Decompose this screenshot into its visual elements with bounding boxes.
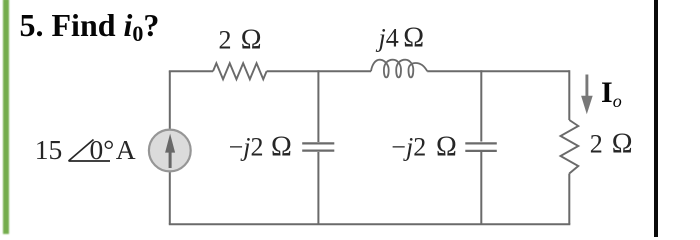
value label: -j2 ohm (for C1) [229,131,292,162]
wire: middle branch 1 upper segment (node B down to capacitor C1) [317,70,319,142]
capacitor C1 (-j2 ohm) [302,143,334,150]
svg-text:2: 2 [590,129,603,158]
value label: j4 ohm (for L1) [376,23,425,54]
svg-text:I: I [601,76,613,109]
wire: middle branch 2 upper segment (node C down to capacitor C2) [480,70,482,141]
svg-text:Ω: Ω [241,25,262,56]
wire: left branch (source branch, from top-left corner to bottom-left corner) [169,71,171,224]
value label: 2 ohm (for R1) [219,25,262,56]
svg-text:−j2: −j2 [391,132,426,161]
svg-text:Ω: Ω [403,23,424,54]
svg-text:2: 2 [219,26,232,55]
wire: top segment from node A (top-left) to resistor R1 [169,70,213,72]
current label: Io [601,76,622,111]
svg-text:Ω: Ω [436,131,457,162]
current source I1 (15 angle 0 A, circle with up arrow) [149,130,191,172]
svg-text:15: 15 [35,134,63,165]
wire: middle branch 1 lower segment (capacitor C1 down to bottom wire) [317,152,319,225]
value label: 15 angle 0 deg A (source phasor value) [35,134,136,165]
wire: right branch lower segment (resistor R2 down to bottom-right corner) [568,174,570,225]
title: 5. Find i0? [20,7,160,46]
svg-text:Ω: Ω [612,128,633,159]
value label: 2 ohm (for R2) [590,128,633,159]
wire: top segment from inductor L1 to top-right corner [427,70,569,72]
inductor L1 (j4 ohm) [371,60,427,78]
wire: top segment from resistor R1 to inductor L1 [267,70,371,72]
svg-text:Ω: Ω [271,131,292,162]
current arrow Io (downward) [581,75,593,115]
svg-text:j4: j4 [376,24,399,53]
wire: right branch upper segment (top-right corner down to resistor R2) [568,70,570,120]
svg-text:−j2: −j2 [229,132,264,161]
resistor R1 (2 ohm, horizontal) [213,63,267,79]
value label: -j2 ohm (for C2) [391,131,457,162]
svg-text:o: o [613,91,622,111]
capacitor C2 (-j2 ohm) [465,143,497,151]
svg-text:5. Find i0?: 5. Find i0? [20,7,160,46]
resistor R2 (2 ohm, vertical) [561,120,579,174]
svg-text:A: A [116,134,136,165]
wire: middle branch 2 lower segment (capacitor C2 down to bottom wire) [480,152,482,226]
wire: bottom return wire [169,223,571,225]
